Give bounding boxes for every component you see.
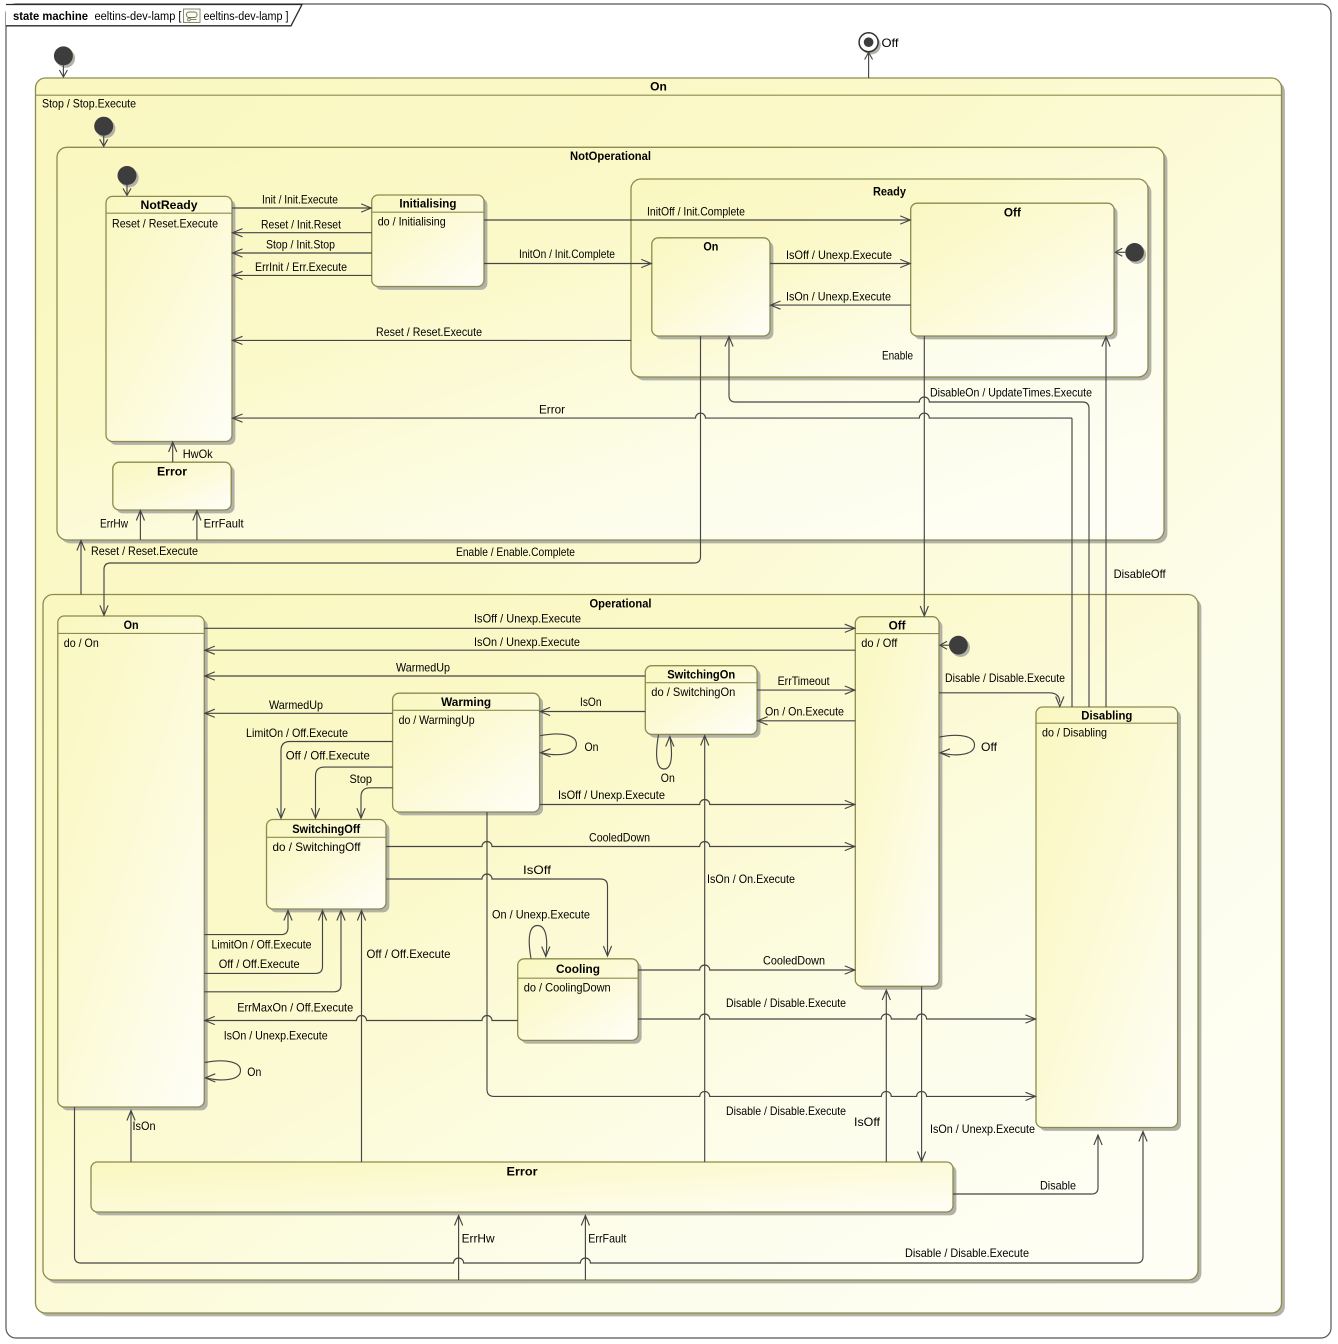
- transition On to final Off: [42, 53, 873, 111]
- initial transition to NotOperational: [100, 136, 108, 147]
- svg-text:IsOn / Unexp.Execute: IsOn / Unexp.Execute: [474, 636, 580, 649]
- svg-text:WarmedUp: WarmedUp: [396, 662, 450, 675]
- svg-text:Warming: Warming: [441, 695, 491, 709]
- transition Error (Disabling to NotReady): [233, 404, 1073, 708]
- svg-text:LimitOn / Off.Execute: LimitOn / Off.Execute: [212, 939, 312, 952]
- svg-text:ErrHw: ErrHw: [462, 1233, 496, 1246]
- svg-text:Error: Error: [507, 1165, 538, 1179]
- svg-text:On / Unexp.Execute: On / Unexp.Execute: [492, 909, 590, 922]
- initial transition to Operational Off: [940, 641, 949, 649]
- svg-text:CooledDown: CooledDown: [589, 832, 650, 845]
- svg-text:SwitchingOff: SwitchingOff: [292, 822, 361, 836]
- transition InitOff / Init.Complete: [484, 206, 910, 224]
- composite state Ready: [631, 179, 1151, 380]
- diagram title tab: state machine eeltins-dev-lamp: [6, 5, 302, 26]
- transition IsOn / Unexp.Execute (Off to Error): [918, 986, 1036, 1161]
- transition ErrTimeout (SwitchingOn to Off): [757, 675, 855, 694]
- transition Disable / Disable.Execute (Warming to Disabling): [487, 812, 1036, 1118]
- final state Off (top): [859, 33, 899, 55]
- svg-text:LimitOn / Off.Execute: LimitOn / Off.Execute: [246, 727, 348, 740]
- svg-text:Off: Off: [889, 618, 907, 632]
- svg-text:IsOff / Unexp.Execute: IsOff / Unexp.Execute: [786, 249, 892, 262]
- svg-text:Off: Off: [882, 36, 900, 50]
- transition LimitOn / Off.Execute (On to SwitchingOff): [204, 911, 311, 952]
- state Cooling: [518, 959, 642, 1044]
- transition DisableOff (Disabling to Ready Off): [1102, 337, 1166, 708]
- state SwitchingOff: [267, 820, 390, 913]
- transition IsOff / Unexp.Execute (Ready): [770, 249, 910, 268]
- svg-text:Stop: Stop: [350, 773, 373, 786]
- svg-text:Error: Error: [539, 404, 565, 417]
- self transition On (Warming): [540, 734, 599, 757]
- self transition On (Operational On): [205, 1061, 261, 1082]
- svg-text:On: On: [650, 79, 667, 93]
- initial transition to On: [59, 65, 67, 77]
- svg-text:IsOn: IsOn: [133, 1120, 156, 1133]
- svg-text:Disable / Disable.Execute: Disable / Disable.Execute: [905, 1247, 1029, 1260]
- transition ErrFault (NotOperational): [193, 511, 245, 541]
- state On (Operational): [58, 616, 208, 1110]
- initial pseudostate (Operational): [949, 636, 970, 657]
- transition IsOn / On.Execute (Error to SwitchingOn): [701, 736, 795, 1163]
- state Error (NotOperational): [113, 462, 235, 513]
- transition IsOff / Unexp.Execute (Warming to Off): [540, 789, 855, 809]
- transition Off / Off.Execute (Warming to SwitchingOff): [286, 750, 393, 819]
- transition ErrInit / Err.Execute: [233, 261, 372, 280]
- state Off (Ready): [911, 203, 1118, 339]
- initial pseudostate (NotReady): [118, 166, 139, 187]
- transition Stop / Init.Stop: [233, 239, 372, 257]
- transition Off / Off.Execute (On to SwitchingOff): [204, 911, 326, 974]
- transition Init / Init.Execute: [232, 194, 371, 212]
- self transition On (SwitchingOn): [657, 735, 675, 785]
- svg-text:eeltins-dev-lamp ]: eeltins-dev-lamp ]: [204, 9, 289, 23]
- svg-text:IsOff / Unexp.Execute: IsOff / Unexp.Execute: [474, 612, 581, 625]
- svg-text:ErrFault: ErrFault: [204, 517, 245, 530]
- svg-text:do / WarmingUp: do / WarmingUp: [399, 714, 475, 727]
- state On (Ready): [652, 238, 774, 340]
- composite state Operational: [43, 595, 1201, 1284]
- svg-text:On: On: [661, 772, 675, 785]
- svg-text:Init / Init.Execute: Init / Init.Execute: [262, 194, 338, 207]
- state Disabling: [1036, 707, 1181, 1131]
- transition ErrMaxOn / Off.Execute (Cooling to On): [205, 1001, 518, 1024]
- svg-text:Off / Off.Execute: Off / Off.Execute: [367, 948, 451, 961]
- transition Off / Off.Execute (Error to SwitchingOff): [357, 911, 450, 1163]
- svg-text:Enable: Enable: [882, 350, 913, 363]
- transition Disable (Error to Disabling): [953, 1135, 1102, 1194]
- svg-text:IsOff: IsOff: [854, 1116, 881, 1129]
- svg-text:do / On: do / On: [64, 637, 99, 650]
- svg-text:ErrMaxOn / Off.Execute: ErrMaxOn / Off.Execute: [237, 1001, 353, 1014]
- svg-text:On: On: [585, 741, 599, 754]
- transition Reset / Reset.Execute (Operational to NotOperational): [77, 541, 198, 595]
- svg-text:On: On: [247, 1066, 261, 1079]
- svg-text:ErrTimeout: ErrTimeout: [778, 675, 831, 688]
- svg-text:do / CoolingDown: do / CoolingDown: [524, 982, 611, 995]
- svg-text:SwitchingOn: SwitchingOn: [667, 667, 735, 681]
- svg-text:Enable / Enable.Complete: Enable / Enable.Complete: [456, 546, 575, 559]
- initial pseudostate (Ready): [1125, 243, 1146, 264]
- svg-text:IsOn / Unexp.Execute: IsOn / Unexp.Execute: [930, 1123, 1035, 1136]
- svg-text:IsOn / On.Execute: IsOn / On.Execute: [707, 873, 795, 886]
- transition ErrHw (Operational): [455, 1216, 496, 1281]
- svg-text:Disabling: Disabling: [1081, 708, 1132, 722]
- transition ErrFault (Operational): [581, 1216, 627, 1281]
- svg-text:Cooling: Cooling: [556, 962, 600, 976]
- transition Enable (Ready Off to Operational Off): [882, 336, 928, 616]
- svg-text:Disable / Disable.Execute: Disable / Disable.Execute: [726, 997, 846, 1010]
- svg-text:do / Off: do / Off: [861, 637, 898, 650]
- svg-text:NotOperational: NotOperational: [570, 149, 651, 163]
- svg-text:NotReady: NotReady: [141, 198, 198, 212]
- transition IsOn / Unexp.Execute (Off to On): [205, 636, 856, 655]
- transition Enable / Enable.Complete (Ready On to Operational On): [100, 336, 701, 615]
- self transition Off (Operational Off): [940, 735, 998, 757]
- transition ErrHw (NotOperational): [100, 511, 145, 541]
- svg-text:Off / Off.Execute: Off / Off.Execute: [286, 750, 370, 763]
- On title separator: [36, 94, 1282, 96]
- transition IsOff / Unexp.Execute (On to Off): [204, 612, 855, 632]
- svg-text:Operational: Operational: [590, 597, 652, 611]
- transition IsOn / Unexp.Execute (Ready): [771, 291, 911, 310]
- composite state NotOperational: [57, 147, 1167, 543]
- svg-text:do / Initialising: do / Initialising: [378, 216, 446, 229]
- svg-text:HwOk: HwOk: [183, 448, 213, 461]
- svg-text:DisableOn / UpdateTimes.Execut: DisableOn / UpdateTimes.Execute: [930, 387, 1092, 400]
- state Warming: [393, 693, 543, 815]
- transition IsOn (SwitchingOn to Warming): [540, 696, 645, 716]
- svg-text:WarmedUp: WarmedUp: [269, 699, 323, 712]
- svg-text:IsOn / Unexp.Execute: IsOn / Unexp.Execute: [224, 1029, 328, 1042]
- svg-text:do / SwitchingOn: do / SwitchingOn: [651, 686, 735, 699]
- svg-text:Off: Off: [981, 741, 998, 754]
- initial pseudostate (top): [54, 46, 75, 67]
- svg-text:Off / Off.Execute: Off / Off.Execute: [219, 958, 300, 971]
- svg-text:Off: Off: [1004, 205, 1022, 219]
- svg-text:eeltins-dev-lamp [: eeltins-dev-lamp [: [95, 9, 183, 23]
- svg-text:On: On: [703, 240, 718, 254]
- svg-text:ErrHw: ErrHw: [100, 517, 129, 530]
- svg-text:Error: Error: [157, 465, 187, 479]
- svg-text:DisableOff: DisableOff: [1114, 568, 1167, 581]
- transition IsOff (Error to Off): [854, 990, 890, 1162]
- svg-text:Ready: Ready: [873, 185, 906, 199]
- svg-text:ErrFault: ErrFault: [588, 1233, 627, 1246]
- svg-text:Reset / Reset.Execute: Reset / Reset.Execute: [91, 545, 198, 558]
- transition LimitOn / Off.Execute (Warming to SwitchingOff): [246, 727, 393, 818]
- transition (On to SwitchingOff third): [204, 911, 345, 1043]
- svg-text:Stop / Init.Stop: Stop / Init.Stop: [266, 239, 335, 252]
- initial pseudostate (NotOperational): [94, 117, 115, 138]
- transition Disable / Disable.Execute (Off to Disabling): [939, 672, 1065, 707]
- svg-text:IsOff: IsOff: [523, 864, 552, 877]
- svg-text:IsOn / Unexp.Execute: IsOn / Unexp.Execute: [786, 291, 891, 304]
- svg-text:Reset / Reset.Execute: Reset / Reset.Execute: [376, 326, 482, 339]
- transition InitOn / Init.Complete: [484, 248, 651, 268]
- svg-text:InitOff / Init.Complete: InitOff / Init.Complete: [647, 206, 745, 219]
- state Error (Operational): [91, 1162, 956, 1215]
- svg-text:Disable / Disable.Execute: Disable / Disable.Execute: [726, 1105, 846, 1118]
- transition IsOn (Error to On): [127, 1111, 156, 1163]
- transition WarmedUp (SwitchingOn to On): [205, 662, 646, 681]
- transition Disable / Disable.Execute (On to Disabling): [75, 1107, 1148, 1263]
- svg-text:do / Disabling: do / Disabling: [1042, 727, 1107, 740]
- transition DisableOn / UpdateTimes.Execute (Disabling to Ready On): [725, 337, 1092, 708]
- initial transition to NotReady: [123, 185, 131, 195]
- state Off (Operational): [855, 617, 942, 990]
- transition Stop (Warming to SwitchingOff): [350, 773, 393, 818]
- svg-text:Reset / Init.Reset: Reset / Init.Reset: [261, 218, 342, 231]
- svg-text:Disable / Disable.Execute: Disable / Disable.Execute: [945, 672, 1065, 685]
- state SwitchingOn: [645, 666, 760, 738]
- transition IsOff (SwitchingOff to Cooling): [386, 864, 612, 956]
- svg-text:state machine: state machine: [13, 9, 88, 23]
- svg-text:On / On.Execute: On / On.Execute: [765, 706, 844, 719]
- svg-text:Stop / Stop.Execute: Stop / Stop.Execute: [42, 98, 136, 111]
- transition HwOk: [169, 442, 213, 462]
- svg-text:CooledDown: CooledDown: [763, 955, 825, 968]
- svg-text:IsOff / Unexp.Execute: IsOff / Unexp.Execute: [558, 789, 665, 802]
- transition Disable / Disable.Execute (Cooling to Disabling): [638, 997, 1035, 1023]
- svg-text:ErrInit / Err.Execute: ErrInit / Err.Execute: [255, 261, 347, 274]
- transition CooledDown (SwitchingOff to Off): [386, 832, 855, 851]
- transition Reset / Init.Reset: [233, 218, 372, 236]
- svg-text:do / SwitchingOff: do / SwitchingOff: [273, 841, 362, 854]
- svg-text:Disable: Disable: [1040, 1180, 1076, 1193]
- transition Reset / Reset.Execute (Ready to NotReady): [233, 326, 632, 345]
- state NotReady: [106, 196, 235, 445]
- svg-text:InitOn / Init.Complete: InitOn / Init.Complete: [519, 248, 615, 261]
- svg-text:Reset / Reset.Execute: Reset / Reset.Execute: [112, 217, 218, 230]
- initial transition to Ready Off: [1115, 248, 1125, 256]
- state Initialising: [372, 195, 488, 290]
- self transition On / Unexp.Execute (Cooling): [492, 909, 590, 959]
- svg-text:Initialising: Initialising: [399, 197, 456, 211]
- svg-text:IsOn: IsOn: [580, 696, 602, 709]
- transition WarmedUp (Warming to On): [205, 699, 393, 718]
- transition On / On.Execute (Off to SwitchingOn): [758, 706, 856, 725]
- transition CooledDown (Cooling to Off): [638, 955, 855, 975]
- svg-text:On: On: [124, 618, 139, 632]
